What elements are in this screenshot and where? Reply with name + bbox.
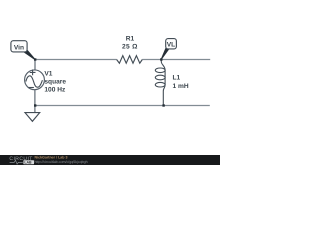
svg-text:http://circuitlab.com/c/gq5kjc: http://circuitlab.com/c/gq5kjcqbgh [35, 160, 88, 164]
svg-text:R1: R1 [126, 36, 135, 43]
svg-text:100 Hz: 100 Hz [44, 87, 66, 94]
svg-text:VL: VL [167, 41, 175, 48]
svg-text:Vin: Vin [14, 44, 24, 51]
svg-text:square: square [44, 79, 66, 86]
svg-text:V1: V1 [44, 71, 52, 78]
svg-text:1 mH: 1 mH [173, 83, 189, 90]
svg-text:25 Ω: 25 Ω [122, 44, 138, 51]
svg-text:LAB: LAB [24, 161, 32, 165]
svg-text:L1: L1 [173, 75, 181, 82]
